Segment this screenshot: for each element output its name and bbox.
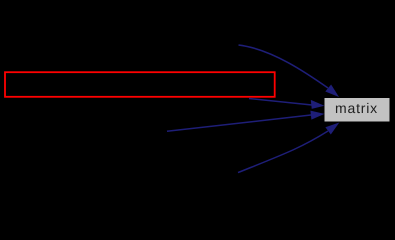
edge bottom curve [238, 131, 328, 173]
edge B (from red node to matrix) [249, 99, 312, 106]
node (red, current file) [5, 72, 275, 97]
arrowhead B [311, 100, 325, 109]
arrowhead top [325, 85, 339, 98]
edge top curve [239, 45, 329, 88]
arrowhead C [310, 111, 324, 120]
svg-text:matrix: matrix [335, 100, 378, 116]
edge C (lower straight edge) [167, 115, 312, 131]
arrowhead bottom [325, 123, 339, 135]
node matrix [325, 98, 390, 122]
